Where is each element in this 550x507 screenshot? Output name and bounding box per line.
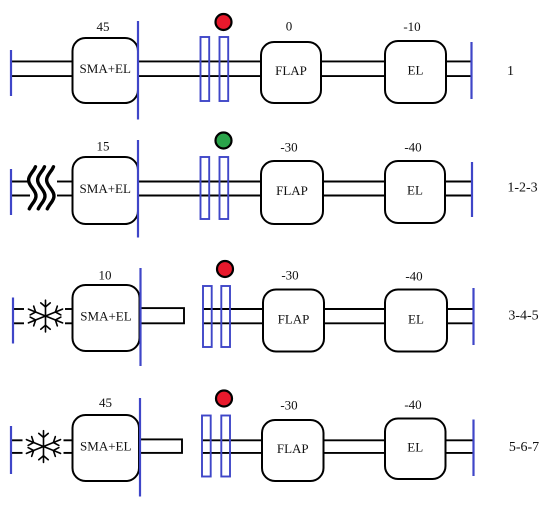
row3 iris plate 2 <box>221 286 230 347</box>
row1 iris plate 1 <box>201 37 210 101</box>
svg-text:FLAP: FLAP <box>278 312 310 327</box>
wire row2: EL to right port <box>445 182 472 196</box>
row4 left port reference bar <box>10 426 12 474</box>
wire row3: plates to FLAP <box>203 309 263 323</box>
svg-text:1-2-3: 1-2-3 <box>507 181 537 196</box>
row3 snowflake (cooling) symbol <box>28 300 62 332</box>
svg-text:-10: -10 <box>403 19 420 34</box>
row4 iris plate 1 <box>202 416 211 477</box>
svg-text:FLAP: FLAP <box>276 183 308 198</box>
wire row4: plates to FLAP <box>202 440 262 453</box>
row1 right port bar <box>470 42 472 99</box>
svg-text:5-6-7: 5-6-7 <box>509 440 539 455</box>
row3 right port bar <box>472 288 474 345</box>
box SMA+EL row1 <box>73 38 139 103</box>
row3 left port reference bar <box>12 298 14 344</box>
row2 iris plate 1 <box>201 157 210 219</box>
wire row2: left port to heater <box>11 182 30 196</box>
box SMA+EL row4 <box>73 415 140 481</box>
wire row1: EL to right port <box>446 61 472 76</box>
svg-text:1: 1 <box>507 64 514 79</box>
row4 red indicator <box>216 391 232 407</box>
svg-text:SMA+EL: SMA+EL <box>80 181 131 196</box>
box EL row4 <box>385 419 446 480</box>
row1 reference plane (tall blue) <box>137 21 139 120</box>
row3 open stub (waveguide) <box>140 308 185 323</box>
row4 open stub (waveguide) <box>139 439 182 453</box>
row1 iris plate 2 <box>220 37 229 101</box>
svg-text:45: 45 <box>97 19 110 34</box>
svg-text:-40: -40 <box>404 140 421 155</box>
row2 heat symbol (3 squiggles) <box>29 167 54 209</box>
svg-text:45: 45 <box>99 395 112 410</box>
svg-text:-40: -40 <box>404 397 421 412</box>
svg-text:FLAP: FLAP <box>277 441 309 456</box>
row4 reference plane (tall blue) <box>139 398 141 497</box>
row2 reference plane (tall blue) <box>137 140 139 238</box>
row1 red indicator <box>216 14 232 30</box>
svg-text:3-4-5: 3-4-5 <box>508 309 538 324</box>
wire row3: EL to right port <box>447 309 474 323</box>
box EL row2 <box>385 161 445 223</box>
wire row1: plane to FLAP <box>138 61 261 76</box>
row1 left port reference bar <box>10 50 12 96</box>
svg-text:EL: EL <box>407 183 423 198</box>
wire row3: cooler to SMA+EL <box>65 309 73 323</box>
row2 right port bar <box>471 162 473 217</box>
svg-text:SMA+EL: SMA+EL <box>80 61 131 76</box>
svg-text:EL: EL <box>408 63 424 78</box>
svg-text:SMA+EL: SMA+EL <box>80 309 131 324</box>
row4 snowflake (cooling) symbol <box>26 431 60 463</box>
svg-text:-30: -30 <box>280 140 297 155</box>
svg-text:FLAP: FLAP <box>275 63 307 78</box>
row3 reference plane (tall blue) <box>139 268 141 366</box>
wire row4: left port to cooler <box>11 440 23 453</box>
wire row3: FLAP to EL <box>324 309 385 323</box>
box SMA+EL row2 <box>73 157 139 224</box>
wire row2: heater to SMA+EL <box>57 182 73 196</box>
svg-text:0: 0 <box>286 19 293 34</box>
wire row2: plane to FLAP <box>138 182 261 196</box>
row4 iris plate 2 <box>221 416 230 477</box>
wire row4: FLAP to EL <box>324 440 386 453</box>
row4 right port bar <box>472 420 474 477</box>
wire row1: left port to SMA+EL <box>11 61 73 76</box>
svg-text:-40: -40 <box>405 269 422 284</box>
box EL row1 <box>385 41 446 103</box>
box SMA+EL row3 <box>73 285 140 351</box>
row2 left port reference bar <box>10 169 12 215</box>
svg-text:-30: -30 <box>281 268 298 283</box>
box FLAP row1 <box>261 42 321 103</box>
row2 iris plate 2 <box>220 157 229 219</box>
svg-text:15: 15 <box>97 139 110 154</box>
svg-text:EL: EL <box>408 312 424 327</box>
box FLAP row2 <box>261 161 323 224</box>
box FLAP row4 <box>262 420 324 481</box>
row3 iris plate 1 <box>203 286 212 347</box>
svg-text:-30: -30 <box>280 398 297 413</box>
svg-text:SMA+EL: SMA+EL <box>80 439 131 454</box>
row3 red indicator <box>217 261 233 277</box>
wire row3: left port to cooler <box>13 309 24 323</box>
svg-text:EL: EL <box>407 440 423 455</box>
wire row1: FLAP to EL <box>321 61 385 76</box>
box EL row3 <box>385 290 447 352</box>
row2 green indicator <box>216 133 232 149</box>
svg-text:10: 10 <box>99 268 112 283</box>
wire row4: EL to right port <box>446 440 474 453</box>
wire row4: cooler to SMA+EL <box>64 440 74 453</box>
box FLAP row3 <box>263 290 324 352</box>
wire row2: FLAP to EL <box>323 182 385 196</box>
